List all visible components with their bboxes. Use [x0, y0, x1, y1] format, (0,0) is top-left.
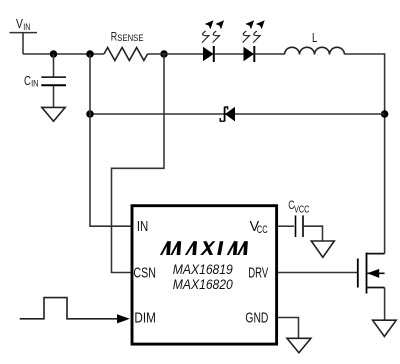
- svg-text:L: L: [312, 30, 317, 45]
- wire: CVCC to ground: [303, 226, 322, 241]
- svg-text:MAX16819: MAX16819: [173, 261, 233, 277]
- svg-text:SENSE: SENSE: [117, 33, 143, 44]
- capacitor CIN: [41, 54, 66, 107]
- svg-text:MAX16820: MAX16820: [173, 276, 233, 292]
- LED D2 emission arrows: [243, 20, 265, 42]
- transistor Q1 (NMOS): [358, 253, 385, 294]
- logo letter X: [203, 241, 213, 255]
- logo letter A: [185, 241, 196, 255]
- svg-text:C: C: [24, 73, 31, 88]
- svg-text:GND: GND: [245, 311, 268, 327]
- ground symbol (GND pin): [287, 338, 311, 353]
- wire: DRV pin to gate: [278, 272, 357, 274]
- node: RSENSE right tap: [160, 50, 168, 58]
- svg-text:IN: IN: [23, 22, 30, 33]
- logo letter I: [217, 241, 223, 255]
- svg-text:IN: IN: [31, 79, 39, 90]
- node: diode row left junction: [86, 110, 94, 118]
- wire: inductor to top-right corner: [345, 53, 385, 55]
- wire: LED1 to LED2: [214, 53, 244, 55]
- node: IN/diode-row tap: [86, 50, 94, 58]
- maxim logo: [160, 241, 248, 255]
- input terminal VIN: [10, 33, 38, 54]
- logo letter M1: [160, 241, 170, 255]
- LED D1: [203, 46, 214, 62]
- wire: MOSFET source to ground: [384, 288, 386, 321]
- wire: LED2 to inductor: [255, 53, 285, 55]
- ground symbol (CVCC): [311, 241, 334, 257]
- svg-text:V: V: [16, 16, 23, 31]
- schottky diode D3: [220, 107, 235, 122]
- wire: freewheeling diode row: [90, 113, 385, 115]
- wire: VCC pin to CVCC: [278, 225, 294, 227]
- svg-text:DRV: DRV: [248, 265, 268, 281]
- wire: IN trace from rail to pin IN: [90, 54, 131, 226]
- wire: CSN trace from RSENSE right to pin CSN: [112, 54, 165, 273]
- logo letter M2: [227, 241, 237, 255]
- DIM arrowhead: [117, 314, 130, 323]
- node: drain/diode junction: [381, 110, 389, 118]
- ground symbol (CIN): [42, 107, 65, 121]
- ground symbol (MOSFET source): [373, 320, 397, 336]
- wire: RSENSE to LED1: [148, 53, 204, 55]
- node: CIN tap: [50, 50, 58, 58]
- DIM pulse waveform: [20, 298, 118, 319]
- LED D2: [244, 46, 255, 62]
- wire: top rail VIN to RSENSE: [23, 53, 104, 55]
- svg-text:VCC: VCC: [294, 204, 309, 215]
- svg-text:CSN: CSN: [133, 265, 156, 281]
- wire: GND pin to ground: [278, 318, 299, 339]
- LED D1 emission arrows: [202, 20, 224, 42]
- wire: right vertical drop to MOSFET drain: [384, 53, 386, 253]
- svg-text:DIM: DIM: [134, 311, 156, 327]
- IC U1 MAX16819/MAX16820: [132, 206, 277, 344]
- resistor RSENSE: [104, 48, 148, 61]
- capacitor CVCC: [296, 215, 304, 237]
- svg-text:IN: IN: [137, 219, 148, 235]
- inductor L: [285, 47, 345, 54]
- svg-text:CC: CC: [257, 224, 268, 236]
